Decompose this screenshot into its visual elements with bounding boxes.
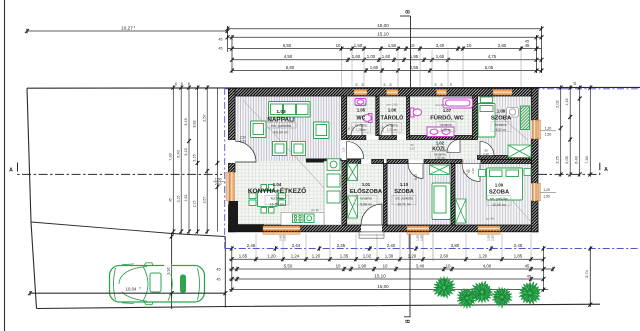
svg-text:1.08: 1.08 xyxy=(497,109,506,114)
window sills below bottom wall xyxy=(263,232,300,234)
double washbasin FURDO xyxy=(427,127,454,137)
svg-text:4,50: 4,50 xyxy=(284,54,293,59)
door opening NAPPALI left wall xyxy=(228,140,236,163)
svg-text:16,00: 16,00 xyxy=(377,284,389,289)
bathtub FURDO xyxy=(443,98,473,108)
svg-text:10: 10 xyxy=(467,43,472,48)
svg-text:1,20: 1,20 xyxy=(267,254,276,259)
dimension 3,92 vertical xyxy=(170,234,174,295)
floor SZOBA 1.08 (parquet) xyxy=(478,96,532,160)
svg-text:10,04: 10,04 xyxy=(126,287,137,292)
svg-text:TÁROLÓ: TÁROLÓ xyxy=(381,114,404,122)
svg-text:10: 10 xyxy=(336,263,341,268)
svg-text:1,85: 1,85 xyxy=(514,254,523,259)
svg-text:B: B xyxy=(404,10,410,14)
dimension 3,74 vertical right xyxy=(589,249,591,305)
svg-text:pm 1,50: pm 1,50 xyxy=(387,103,398,107)
svg-text:1.07: 1.07 xyxy=(443,108,452,113)
door arc SZOBA 1.08 xyxy=(480,142,494,156)
svg-text:keramia: keramia xyxy=(440,123,452,127)
wardrobe SZOBA 1.08 xyxy=(521,106,530,130)
svg-text:keramia: keramia xyxy=(360,197,372,201)
svg-text:1,50: 1,50 xyxy=(354,43,363,48)
sofa NAPPALI xyxy=(269,102,311,118)
svg-text:KONYHA+ÉTKEZŐ: KONYHA+ÉTKEZŐ xyxy=(248,186,306,195)
svg-text:5,50: 5,50 xyxy=(284,263,293,268)
toilet WC xyxy=(363,114,372,123)
svg-text:16,00: 16,00 xyxy=(377,23,389,28)
chest SZOBA 1.09 (X box) xyxy=(456,199,467,223)
svg-text:2,10: 2,10 xyxy=(483,152,489,156)
svg-text:2,45: 2,45 xyxy=(337,243,346,248)
svg-text:5,05: 5,05 xyxy=(485,65,494,70)
car (top view, green) xyxy=(110,263,205,305)
outer wall top xyxy=(229,88,539,96)
bottom dimension row 5 xyxy=(229,289,548,291)
svg-text:10: 10 xyxy=(446,263,451,268)
floor TAROLO (tile) xyxy=(379,96,406,136)
svg-text:KÖZL.: KÖZL. xyxy=(432,146,448,153)
svg-text:2,10: 2,10 xyxy=(351,126,355,132)
svg-text:1,20: 1,20 xyxy=(545,126,552,130)
svg-text:10: 10 xyxy=(336,43,341,48)
door arc entry xyxy=(361,204,382,225)
svg-text:2,10: 2,10 xyxy=(409,147,415,151)
wall WC/TAROLO xyxy=(376,96,379,136)
svg-text:3,40: 3,40 xyxy=(416,263,425,268)
svg-text:NAPPALI: NAPPALI xyxy=(267,117,295,124)
svg-text:2,10: 2,10 xyxy=(240,139,246,143)
tree 3 xyxy=(471,281,493,302)
svg-text:1,90: 1,90 xyxy=(358,263,367,268)
window KONYHA left wall xyxy=(229,172,234,205)
svg-text:2,55: 2,55 xyxy=(410,65,419,70)
svg-text:pm 2,50: pm 2,50 xyxy=(436,103,447,107)
dimension line 15,10 top xyxy=(228,36,542,38)
site boundary top xyxy=(27,86,640,89)
outer wall bottom xyxy=(229,225,539,232)
chest SZOBA 1.08 (X box) xyxy=(508,145,531,158)
svg-text:B: B xyxy=(404,320,410,324)
wall KONYHA/ELOSZOBA upper part with opening xyxy=(342,161,347,226)
wardrobe SZOBA 1.10 xyxy=(432,183,451,220)
svg-text:3,92: 3,92 xyxy=(165,267,170,275)
wall FURDO/SZOBA 1.08 xyxy=(473,96,478,140)
svg-text:1.03: 1.03 xyxy=(276,109,286,115)
site boundary left xyxy=(27,88,37,308)
outer wall left (upper) xyxy=(229,88,236,140)
svg-text:8,52 m²: 8,52 m² xyxy=(496,128,507,132)
svg-text:1,62: 1,62 xyxy=(184,195,188,202)
svg-text:1,00: 1,00 xyxy=(283,235,287,241)
svg-text:2,05: 2,05 xyxy=(565,156,569,163)
svg-text:2,15: 2,15 xyxy=(193,154,197,161)
diagonal line SZOBA 1.09 xyxy=(505,192,531,222)
door arc FURDO xyxy=(447,140,460,153)
svg-text:45: 45 xyxy=(217,278,221,282)
svg-text:pm 2,60: pm 2,60 xyxy=(356,103,367,107)
section line A-A left xyxy=(18,163,223,175)
svg-text:45: 45 xyxy=(174,82,178,86)
svg-text:45: 45 xyxy=(219,38,223,42)
svg-text:sm. padlólap: sm. padlólap xyxy=(490,197,508,201)
desk SZOBA 1.08 xyxy=(507,108,519,118)
svg-text:2,40: 2,40 xyxy=(387,243,396,248)
svg-text:1.05: 1.05 xyxy=(357,108,366,113)
floor WC (tile) xyxy=(347,96,376,136)
top dimension block right connectors xyxy=(541,26,543,73)
bottom dimension row 4 xyxy=(229,278,544,280)
dimension row top inner xyxy=(232,70,542,72)
outer wall right (mid) xyxy=(532,139,539,183)
svg-text:keramia: keramia xyxy=(386,124,398,128)
section line A-A right xyxy=(538,163,600,175)
svg-text:49,04 m²: 49,04 m² xyxy=(274,131,290,135)
floor FURDO (tile) xyxy=(410,96,473,140)
svg-text:6,40: 6,40 xyxy=(176,150,180,157)
svg-text:3,80: 3,80 xyxy=(451,243,460,248)
bottom dimension row on setback line xyxy=(230,246,546,250)
svg-text:ELŐSZOBA: ELŐSZOBA xyxy=(350,188,383,195)
svg-text:1,50: 1,50 xyxy=(545,132,552,136)
svg-text:6,80: 6,80 xyxy=(286,65,295,70)
label boxes (flooring/area) xyxy=(352,123,371,133)
svg-text:1,20: 1,20 xyxy=(408,254,417,259)
outer wall left (between door and window) xyxy=(229,163,236,172)
svg-text:1,24: 1,24 xyxy=(291,254,300,259)
window TAROLO top xyxy=(387,89,399,95)
dimension row top windows xyxy=(228,48,542,50)
floor KONYHA (tile) xyxy=(235,161,342,225)
svg-text:1,50: 1,50 xyxy=(420,235,424,241)
svg-text:A: A xyxy=(604,167,608,173)
svg-text:2,44: 2,44 xyxy=(292,243,301,248)
wall SZOBA 1.10/1.09 xyxy=(451,164,455,226)
svg-text:1.04: 1.04 xyxy=(273,182,282,187)
svg-text:6,40: 6,40 xyxy=(575,156,579,163)
svg-text:10: 10 xyxy=(383,263,388,268)
svg-text:2,02: 2,02 xyxy=(556,100,560,107)
window sill left wall xyxy=(226,172,228,201)
tree 4 xyxy=(492,288,512,308)
svg-text:1,20: 1,20 xyxy=(543,188,550,192)
svg-text:10: 10 xyxy=(410,43,415,48)
wall TAROLO/FURDO xyxy=(407,96,410,140)
svg-text:keramia: keramia xyxy=(495,123,507,127)
shelf SZOBA 1.08 xyxy=(481,97,493,103)
svg-text:3,82: 3,82 xyxy=(193,120,197,127)
svg-text:em. parketta: em. parketta xyxy=(271,124,291,128)
svg-text:45: 45 xyxy=(525,263,530,268)
parking area slant line xyxy=(31,222,225,237)
diagonal line SZOBA 1.08 xyxy=(479,98,528,140)
wall under FURDO xyxy=(410,136,473,140)
tree 1 xyxy=(434,277,455,298)
toilet FURDO xyxy=(410,108,421,117)
bottom block connectors xyxy=(543,246,545,291)
window label right 1.08 xyxy=(540,130,556,132)
svg-text:1,20: 1,20 xyxy=(479,254,488,259)
svg-text:WC: WC xyxy=(357,116,366,122)
svg-text:45: 45 xyxy=(187,82,191,86)
svg-text:1,65: 1,65 xyxy=(239,254,248,259)
door arc SZOBA 1.09 xyxy=(462,164,480,182)
floor NAPPALI (parquet) xyxy=(235,96,342,161)
coffee tables NAPPALI xyxy=(273,142,306,156)
window SZOBA 1.09 bottom xyxy=(478,226,500,231)
svg-text:1.01: 1.01 xyxy=(362,182,371,187)
kitchen half wall xyxy=(306,159,342,163)
dimension line 16,00 top xyxy=(228,28,542,30)
svg-text:2,15: 2,15 xyxy=(193,201,197,208)
floor KOZL corridor (tile) xyxy=(347,140,478,161)
svg-text:3,74: 3,74 xyxy=(584,269,589,277)
stove xyxy=(293,214,315,223)
armchair NAPPALI left xyxy=(251,121,267,138)
solid corner wall bottom-left xyxy=(229,201,239,232)
svg-text:45: 45 xyxy=(219,47,223,51)
svg-text:2,60: 2,60 xyxy=(440,254,449,259)
svg-text:3,15: 3,15 xyxy=(184,148,188,155)
svg-text:6,41 m²: 6,41 m² xyxy=(441,128,452,132)
nightstand SZOBA 1.09 left xyxy=(479,170,486,177)
svg-text:10,71 m²: 10,71 m² xyxy=(397,203,411,207)
setback line horizontal (blue dashed) xyxy=(225,248,640,250)
svg-text:1,50: 1,50 xyxy=(388,43,397,48)
svg-text:1,50: 1,50 xyxy=(491,235,495,241)
parking area vertical line left xyxy=(171,234,173,310)
window SZOBA 1.09 right wall xyxy=(532,183,537,201)
chest SZOBA 1.10 (X box) xyxy=(430,165,450,175)
svg-text:1,60: 1,60 xyxy=(370,65,379,70)
dimension row top openings xyxy=(232,59,542,61)
svg-text:2,21 m²: 2,21 m² xyxy=(387,128,398,132)
top guide lines xyxy=(341,50,343,87)
svg-text:2,28 m²: 2,28 m² xyxy=(356,128,367,132)
armchair NAPPALI right xyxy=(314,122,330,139)
svg-text:1,95: 1,95 xyxy=(410,54,419,59)
site boundary bottom xyxy=(37,304,601,308)
section line B-B top xyxy=(410,16,412,88)
svg-text:2,57: 2,57 xyxy=(202,114,206,121)
svg-text:3,25: 3,25 xyxy=(556,156,560,163)
svg-text:45: 45 xyxy=(217,268,221,272)
svg-text:10,27: 10,27 xyxy=(121,25,133,30)
svg-text:1,10: 1,10 xyxy=(341,147,345,153)
window KONYHA bottom xyxy=(263,226,300,231)
diagonal line NAPPALI-KONYHA xyxy=(243,100,338,203)
svg-text:4,75: 4,75 xyxy=(488,54,497,59)
svg-text:1,50: 1,50 xyxy=(543,195,550,199)
svg-text:5,50: 5,50 xyxy=(283,43,292,48)
parking dimension line 10,04 xyxy=(30,292,225,294)
corridor bottom wall xyxy=(347,160,361,164)
window SZOBA 1.10 bottom xyxy=(407,226,429,231)
svg-text:4,00: 4,00 xyxy=(483,263,492,268)
entry steps xyxy=(359,232,384,238)
wall NAPPALI/WC xyxy=(342,96,347,140)
line through parking over car xyxy=(30,292,225,294)
window sills right wall xyxy=(538,120,540,139)
svg-text:pm 66: pm 66 xyxy=(311,208,319,212)
svg-text:3,15: 3,15 xyxy=(184,118,188,125)
svg-text:1.09: 1.09 xyxy=(495,183,504,188)
svg-text:3,40: 3,40 xyxy=(436,43,445,48)
svg-text:7,92 m²: 7,92 m² xyxy=(435,156,446,160)
svg-text:7,30: 7,30 xyxy=(585,156,589,163)
window SZOBA 1.08 right wall xyxy=(532,120,537,139)
wall under WC/TAROLO xyxy=(347,136,366,140)
svg-text:SZOBA: SZOBA xyxy=(394,189,414,195)
tree 2 xyxy=(457,289,477,309)
svg-text:3,15: 3,15 xyxy=(176,196,180,203)
page border line xyxy=(4,0,6,331)
outer wall left (lower) xyxy=(229,205,236,232)
bed SZOBA 1.08 xyxy=(478,104,495,138)
left dimension chains xyxy=(172,88,174,232)
door arc SZOBA 1.10 xyxy=(408,164,423,179)
bottom dimension row 2 xyxy=(229,258,544,260)
svg-text:2,10: 2,10 xyxy=(215,182,222,186)
svg-text:1,30: 1,30 xyxy=(385,254,394,259)
svg-text:keramia: keramia xyxy=(355,124,367,128)
svg-text:45: 45 xyxy=(527,273,532,278)
svg-text:1.02: 1.02 xyxy=(436,141,445,146)
outer wall right (lower) xyxy=(532,201,539,232)
washbasin WC xyxy=(355,99,366,106)
top dimension block left connector xyxy=(227,26,229,52)
kitchen counter bottom xyxy=(281,213,324,226)
svg-text:12,60 m²: 12,60 m² xyxy=(492,203,506,207)
svg-text:2,45: 2,45 xyxy=(247,243,256,248)
svg-text:1,02: 1,02 xyxy=(363,254,372,259)
svg-text:15,10: 15,10 xyxy=(377,32,389,37)
svg-text:7,30: 7,30 xyxy=(169,153,173,160)
svg-text:1,60: 1,60 xyxy=(352,54,361,59)
svg-text:1,90: 1,90 xyxy=(215,178,222,182)
svg-text:45: 45 xyxy=(525,43,530,48)
door arc TAROLO xyxy=(381,125,392,136)
door arc KONYHA to corridor xyxy=(347,142,364,159)
svg-text:45: 45 xyxy=(180,82,184,86)
bed SZOBA 1.09 xyxy=(487,168,523,200)
cabinet ELOSZOBA lower (X box) xyxy=(348,196,358,218)
svg-text:2,80: 2,80 xyxy=(498,43,507,48)
svg-text:15,10: 15,10 xyxy=(374,273,386,278)
svg-text:keramia: keramia xyxy=(271,197,284,201)
svg-text:A: A xyxy=(9,167,13,173)
svg-text:3,15: 3,15 xyxy=(414,174,418,180)
svg-text:SZOBA: SZOBA xyxy=(491,116,512,122)
door arc NAPPALI terrace xyxy=(235,141,256,162)
tree 5 xyxy=(519,282,540,305)
dimension line 10,27 xyxy=(27,30,228,32)
svg-text:2,10: 2,10 xyxy=(471,168,475,174)
parking area vertical line right xyxy=(224,237,226,308)
svg-text:5,98 m²: 5,98 m² xyxy=(360,203,372,207)
outer wall right (upper) xyxy=(532,88,539,120)
svg-text:2,57: 2,57 xyxy=(202,197,206,204)
bottom dimension row 3 xyxy=(229,268,553,270)
entry door opening bottom xyxy=(361,225,382,233)
window label right 1.09 xyxy=(538,192,556,194)
svg-text:2,10: 2,10 xyxy=(381,126,385,132)
svg-text:45: 45 xyxy=(573,82,577,86)
right dimension chains xyxy=(560,88,562,175)
svg-text:1,00: 1,00 xyxy=(367,54,376,59)
svg-text:1.06: 1.06 xyxy=(388,108,397,113)
dining table xyxy=(249,185,286,214)
cabinet ELOSZOBA upper (X box) xyxy=(348,164,358,181)
floor ELOSZOBA (tile) xyxy=(347,164,384,226)
kitchen counter right column xyxy=(324,161,342,225)
svg-text:1,20: 1,20 xyxy=(312,254,321,259)
svg-text:SZOBA: SZOBA xyxy=(489,190,510,196)
floor SZOBA 1.09 (parquet) xyxy=(455,160,532,226)
svg-text:pm 66: pm 66 xyxy=(486,217,494,221)
nightstand SZOBA 1.09 right xyxy=(524,169,531,176)
svg-text:1.10: 1.10 xyxy=(400,182,409,187)
svg-text:sm. parketta: sm. parketta xyxy=(395,197,413,201)
setback line vertical (blue dashed) xyxy=(224,88,226,249)
section line B-B bottom xyxy=(404,232,410,317)
svg-text:1,35: 1,35 xyxy=(340,254,349,259)
wall SZOBA 1.08 bottom xyxy=(478,156,532,160)
svg-text:1,60: 1,60 xyxy=(436,54,445,59)
svg-text:FÜRDŐ, WC: FÜRDŐ, WC xyxy=(430,115,464,122)
svg-text:2,45: 2,45 xyxy=(514,243,523,248)
svg-text:45: 45 xyxy=(169,198,173,202)
svg-text:1,60: 1,60 xyxy=(382,54,391,59)
wall ELOSZOBA/SZOBA 1.10 xyxy=(384,164,388,226)
svg-text:1,42: 1,42 xyxy=(565,98,569,105)
setback line along top wall (blue dashed) xyxy=(225,88,640,90)
floor SZOBA 1.10 (parquet) xyxy=(387,164,451,226)
bottom guide lines xyxy=(255,234,257,258)
svg-text:16,54 m²: 16,54 m² xyxy=(270,203,286,207)
window FURDO top xyxy=(437,89,447,95)
door arc WC xyxy=(351,125,362,136)
window SZOBA 1.08 top xyxy=(493,89,512,95)
window WC top xyxy=(354,89,367,95)
